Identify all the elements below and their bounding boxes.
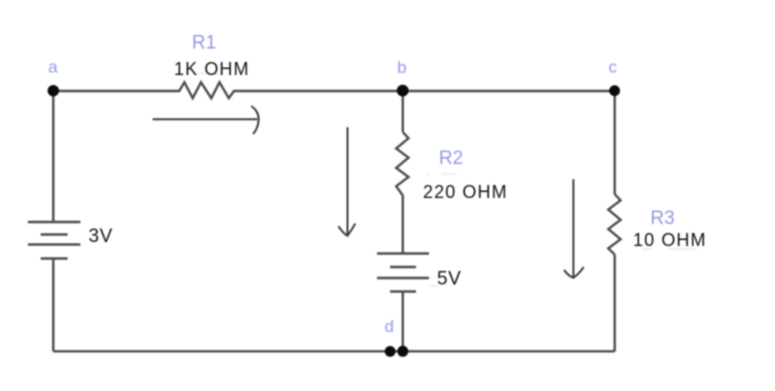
svg-text:c: c bbox=[609, 57, 618, 76]
svg-text:3V: 3V bbox=[89, 226, 113, 247]
svg-text:5V: 5V bbox=[437, 269, 461, 290]
svg-text:R1: R1 bbox=[192, 32, 216, 53]
svg-text:d: d bbox=[384, 317, 393, 336]
svg-text:a: a bbox=[48, 57, 58, 76]
svg-text:R3: R3 bbox=[650, 208, 674, 229]
svg-text:b: b bbox=[397, 58, 406, 77]
svg-text:R2: R2 bbox=[439, 148, 463, 169]
svg-text:1K OHM: 1K OHM bbox=[174, 59, 250, 79]
svg-text:10 OHM: 10 OHM bbox=[633, 230, 707, 250]
svg-text:220 OHM: 220 OHM bbox=[423, 182, 508, 202]
